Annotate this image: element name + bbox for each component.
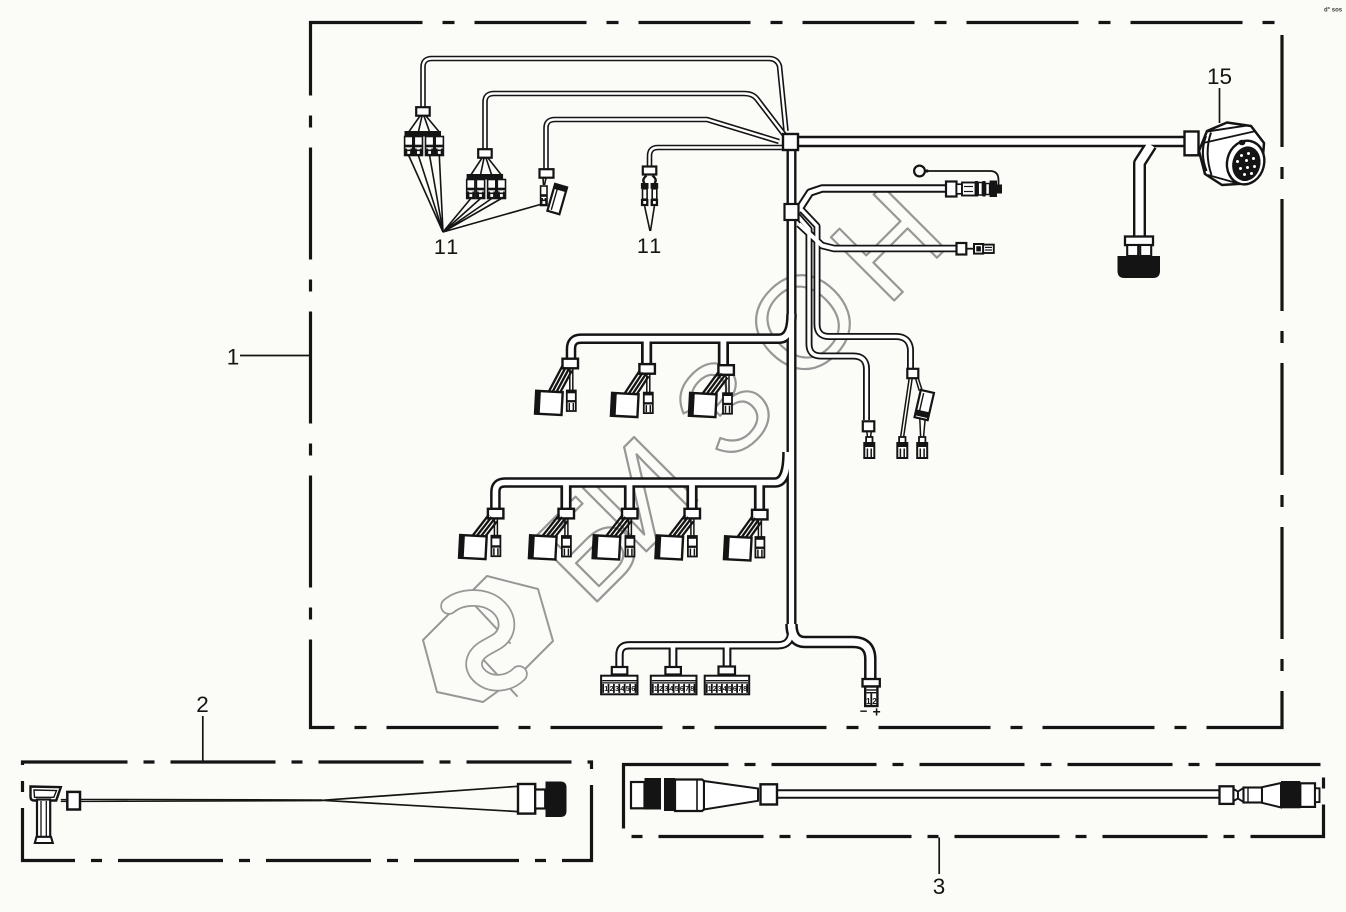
leader line to connector D1 xyxy=(443,204,542,232)
small plug pair on branch 2 xyxy=(957,243,967,255)
terminal block 3 (pins 1-8) xyxy=(705,676,750,695)
connector cluster B (item 11) xyxy=(478,149,492,158)
clamp terminal drop 2 xyxy=(665,667,681,675)
wire run3 to connector D1 xyxy=(546,120,779,172)
wire main run to connector 15 xyxy=(788,136,1185,148)
wire bundle branch B xyxy=(795,213,867,420)
svg-text:2: 2 xyxy=(196,692,209,717)
tilted relay housing xyxy=(915,390,934,420)
connector assembly row1 #3 xyxy=(718,365,734,375)
wire branch to ring terminal plug xyxy=(798,189,947,212)
svg-text:11: 11 xyxy=(434,235,460,259)
collar of connector 15 xyxy=(1185,132,1199,156)
svg-text:d° ѕоѕ: d° ѕоѕ xyxy=(1324,8,1343,14)
wire row2 riser 3 xyxy=(624,483,635,509)
sensor bracket (item 2) xyxy=(31,787,61,801)
leader lines to label 11 (left) xyxy=(409,156,443,233)
wire row2 riser 5 xyxy=(754,483,765,510)
connector assembly row1 #1 xyxy=(563,359,579,369)
wire bundle branch A xyxy=(799,207,911,368)
inline cylindrical plug pair xyxy=(946,182,957,197)
connector 15 round multipin housing xyxy=(1199,123,1264,186)
leader lines to label 11 from cluster B xyxy=(443,199,471,233)
svg-text:15: 15 xyxy=(1207,64,1232,89)
connector assembly row2 #2 xyxy=(559,509,575,519)
watermark logo hexagon link xyxy=(423,576,553,702)
watermark logo inner edges xyxy=(467,597,510,643)
clamp of branch A xyxy=(907,369,918,378)
leader lines to label 11 (right) xyxy=(645,206,650,231)
connector cluster E (item 11) xyxy=(643,167,657,175)
connector D1 with tilted housing xyxy=(540,169,554,178)
connector assembly row2 #4 xyxy=(685,509,701,519)
wire row1 riser 2 xyxy=(641,339,652,364)
connector of item 2 xyxy=(518,784,535,814)
wire row2 bus xyxy=(495,452,787,508)
wire run2 to connector cluster B xyxy=(485,94,785,154)
wire row2 riser 2 xyxy=(560,483,571,509)
connector left of item 3 xyxy=(631,782,645,808)
connector assembly row2 #1 xyxy=(488,509,504,519)
connector cluster A (item 11) xyxy=(416,107,430,116)
wire pipe to threaded fitting xyxy=(1140,145,1152,237)
wires clamp B to bullet xyxy=(866,432,869,438)
dashed border of box 2 xyxy=(23,762,592,861)
battery plug (pins 1,2 - +) xyxy=(863,679,880,687)
wire row2 riser 4 xyxy=(686,483,697,509)
tapered sleeve of item 2 xyxy=(322,786,518,800)
bullet connector right 2 xyxy=(919,437,925,444)
threaded fitting with protective cap xyxy=(1125,237,1153,246)
svg-text:1: 1 xyxy=(227,345,240,370)
svg-text:−: − xyxy=(860,704,868,719)
thin cable of item 2 xyxy=(61,799,68,801)
bullet connector right 3 xyxy=(866,437,872,444)
connector assembly row1 #2 xyxy=(639,364,655,374)
clamp on trunk xyxy=(785,204,799,220)
wire bottom bus to terminal blocks xyxy=(620,630,792,667)
grommet of item 2 xyxy=(67,792,80,810)
wire main trunk xyxy=(787,144,797,630)
dashed border of box 1 xyxy=(311,23,1283,728)
connector assembly row2 #3 xyxy=(622,509,638,519)
wire branch to small plug xyxy=(799,224,957,249)
ring terminal xyxy=(914,166,925,177)
svg-text:3: 3 xyxy=(933,874,946,899)
connector right of item 3 xyxy=(1220,786,1234,804)
cable of item 3 xyxy=(775,789,1220,798)
wire terminal drop 2 xyxy=(669,645,678,667)
wire from ring terminal to plug xyxy=(929,171,999,186)
wire branch to battery plug xyxy=(792,624,871,678)
dashed border of box 3 xyxy=(624,765,1324,837)
wire run1 to connector cluster A xyxy=(423,59,786,132)
wire interiors (white cores) xyxy=(423,59,1220,795)
wire run4 to connector cluster E xyxy=(650,148,784,169)
clamp terminal drop 3 xyxy=(719,667,736,675)
bullet connector right 1 xyxy=(899,437,905,444)
clamp terminal drop 1 xyxy=(612,667,628,675)
watermark logo S-curve xyxy=(449,598,519,683)
terminal block 2 (pins 1-8) xyxy=(651,676,697,695)
wire terminal drop 3 xyxy=(723,645,732,666)
terminal block 1 (pins 1-6) xyxy=(601,676,637,695)
clamp of branch B xyxy=(863,421,875,431)
svg-text:+: + xyxy=(873,704,881,720)
wire row1 riser 3 xyxy=(718,339,729,365)
junction J1 harness breakout xyxy=(783,134,798,150)
connector assembly row2 #5 xyxy=(752,510,768,520)
wire row1 bus xyxy=(571,314,792,358)
svg-text:11: 11 xyxy=(637,234,663,258)
fan wires below branch A clamp xyxy=(901,378,910,436)
